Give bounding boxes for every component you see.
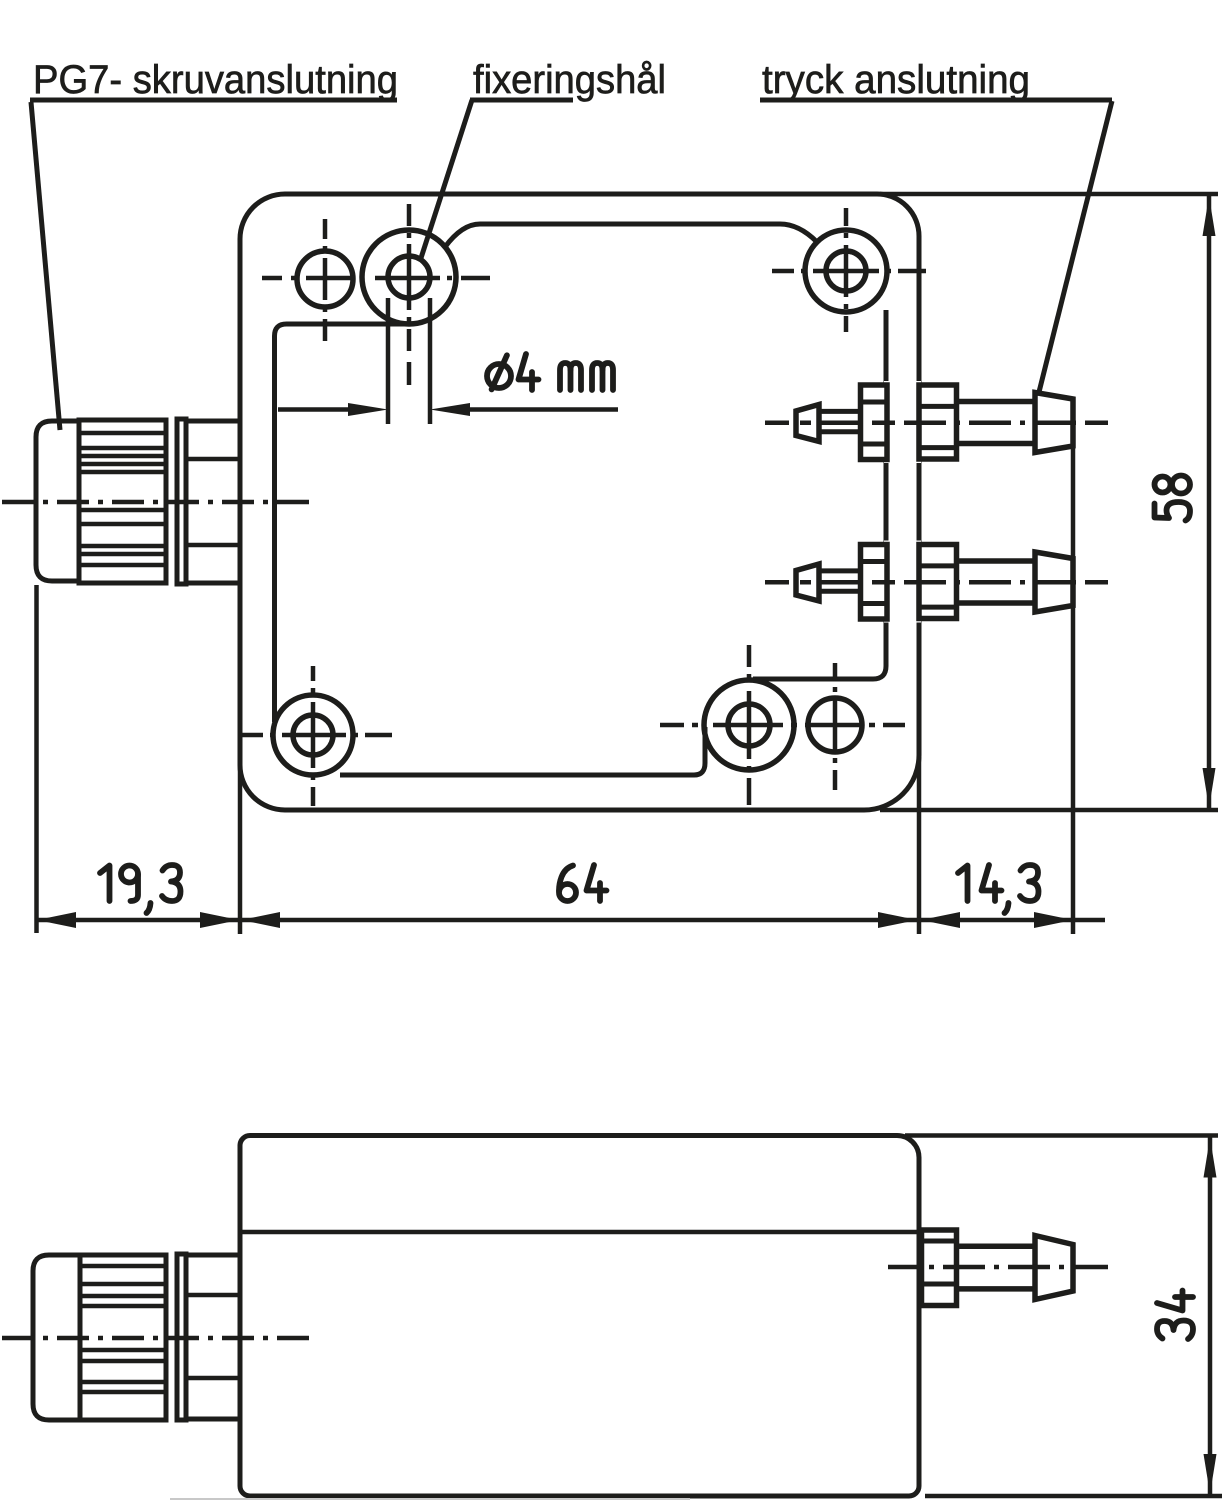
lid recess outline top edge <box>445 224 817 247</box>
centreline boss bottom-right vertical <box>747 645 752 805</box>
o4 hole extension lines <box>386 298 391 424</box>
underline tryck anslutning <box>760 98 1112 103</box>
text 64 <box>559 865 607 901</box>
svg-text:tryck anslutning: tryck anslutning <box>762 58 1030 102</box>
extension line top edge <box>880 192 1218 197</box>
PG7 gland cap (side view) <box>33 1255 80 1420</box>
scan artifact bottom edge <box>170 1498 690 1500</box>
lower cone <box>1035 552 1073 612</box>
text 34 <box>1157 1291 1193 1340</box>
upper inner tip <box>796 405 819 442</box>
lid recess outline bottom-right step <box>340 727 705 775</box>
upper centreline <box>765 420 1108 425</box>
PG7 gland washer (side view) <box>177 1254 186 1420</box>
extension line enclosure left <box>238 760 243 934</box>
hose barb (side view) cone <box>1035 1236 1073 1300</box>
horizontal dimension line <box>37 918 1105 923</box>
upper inner flange <box>861 385 888 460</box>
text 58 <box>1155 476 1191 521</box>
leader fixeringshal to fixing hole <box>421 100 472 258</box>
extension line enclosure right <box>917 757 922 934</box>
lid split line (side view) <box>240 1230 919 1235</box>
leader PG7 to cable gland <box>31 102 60 430</box>
text 14,3 <box>958 865 1039 913</box>
hose barb (side view) barrel <box>957 1246 1035 1289</box>
hose barb connector upper: wall mask <box>884 381 921 463</box>
vertical dimension line 58 <box>1207 196 1212 808</box>
svg-text:fixeringshål: fixeringshål <box>473 58 666 102</box>
centrelines boss bottom-right + screw hole BR (horizontal) <box>660 723 905 728</box>
lid recess outline right edge <box>753 310 886 679</box>
PG7 gland hex nut (top view) <box>186 421 240 583</box>
hose barb (side view) nut <box>922 1230 957 1306</box>
lid recess outline left edge and top-left shelf <box>275 324 410 722</box>
PG7 gland washer (top view) <box>177 419 186 584</box>
gland centreline (side view) <box>2 1336 309 1341</box>
underline PG7 <box>30 98 397 103</box>
lower inner flange <box>861 545 888 620</box>
leader tryck anslutning to hose barb <box>1039 101 1112 392</box>
PG7 gland ribbed body (side view) <box>80 1255 166 1420</box>
boss top-right <box>805 230 887 312</box>
boss bottom-left <box>273 695 353 775</box>
centrelines boss bottom-left <box>241 733 392 738</box>
svg-text:PG7- skruvanslutning: PG7- skruvanslutning <box>33 58 398 102</box>
centreline screw hole TL vertical <box>323 219 328 341</box>
underline fixeringshal <box>470 98 573 103</box>
centrelines boss top-right <box>772 269 926 274</box>
lower barrel <box>957 561 1035 603</box>
extension line barb tip <box>1071 399 1076 934</box>
lower outer nut <box>919 545 957 619</box>
extension line top (side) <box>905 1133 1218 1138</box>
extension line bottom (side) <box>925 1494 1222 1499</box>
PG7 gland hex nut (side view) <box>186 1255 240 1419</box>
lower inner tip <box>796 564 819 601</box>
upper barrel <box>957 402 1035 444</box>
upper outer nut <box>919 385 957 459</box>
screw hole top-left <box>297 251 353 307</box>
PG7 gland ribbed body (top view) <box>79 420 166 583</box>
hose barb connector lower: wall mask <box>884 541 921 623</box>
upper cone <box>1035 393 1073 453</box>
extension line bottom edge <box>880 808 1218 813</box>
PG7 gland cap (top view) <box>36 421 79 581</box>
screw hole bottom-right <box>808 698 862 752</box>
o4 dimension line with arrows <box>278 407 350 412</box>
enclosure outline (top view) <box>240 194 919 810</box>
text 19,3 <box>100 865 181 913</box>
centreline fixing hole vertical <box>407 204 412 385</box>
text o4 mm <box>487 354 613 390</box>
boss bottom-right <box>704 680 794 770</box>
gland centreline (top view) <box>2 500 309 505</box>
centreline screw hole BR vertical <box>833 663 838 790</box>
vertical dimension line 34 <box>1208 1138 1213 1495</box>
fixing hole boss (o4) <box>362 230 456 324</box>
centrelines screw hole TL + fixing hole (horizontal) <box>262 276 490 281</box>
barb centreline (side view) <box>888 1265 1108 1270</box>
extension line left (gland cap) <box>34 585 39 933</box>
lower centreline <box>765 580 1108 585</box>
arrowheads horizontal dimension <box>37 912 76 928</box>
enclosure body (side view) <box>240 1136 919 1497</box>
